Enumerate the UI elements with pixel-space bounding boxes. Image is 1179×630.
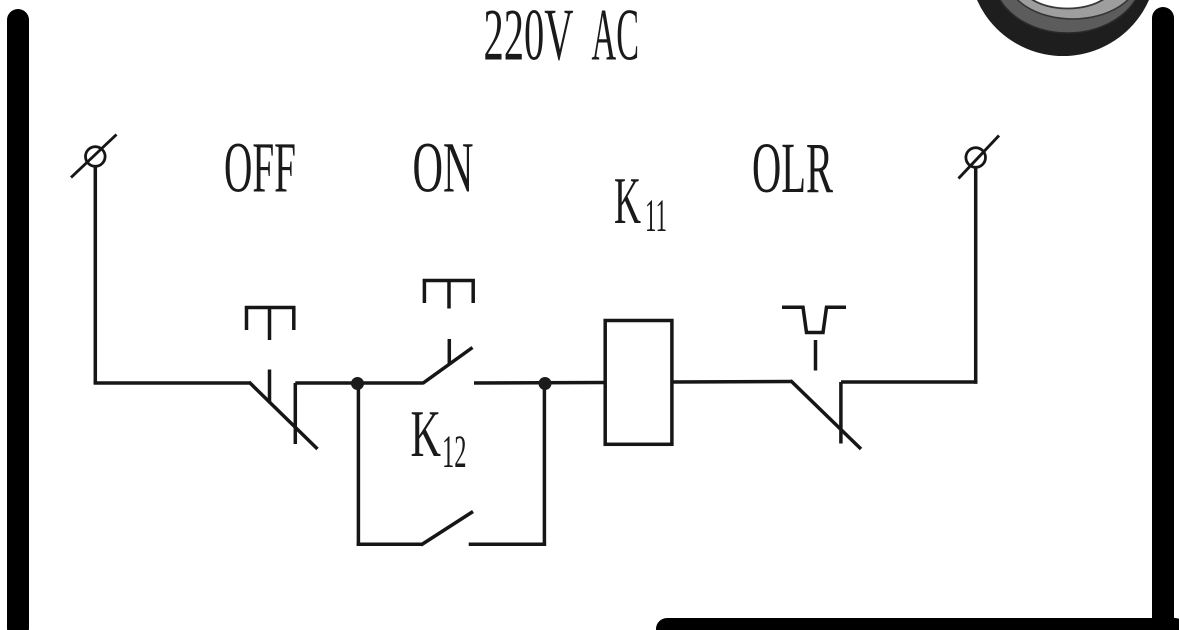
svg-text:220V: 220V [484,0,574,77]
svg-text:11: 11 [645,191,667,242]
svg-text:ON: ON [413,129,474,208]
svg-text:12: 12 [442,427,467,478]
svg-text:K: K [411,398,442,471]
svg-text:K: K [614,165,641,238]
svg-text:OLR: OLR [752,129,833,208]
svg-text:AC: AC [592,0,640,77]
svg-text:OFF: OFF [224,129,296,208]
